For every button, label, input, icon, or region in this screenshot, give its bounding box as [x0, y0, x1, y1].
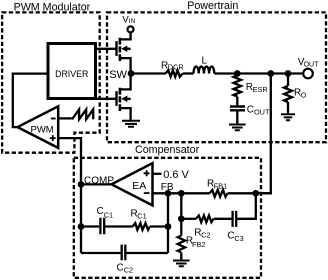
capacitor COUT [230, 107, 245, 111]
wire PWM plus input to COMP node [58, 138, 81, 253]
PWM minus input [51, 118, 56, 120]
CC2 label [117, 263, 134, 275]
op-amp EA error amplifier [112, 163, 153, 205]
wire RFB2 to ground [180, 253, 182, 260]
Powertrain box [107, 12, 326, 142]
wire COUT to ground [236, 110, 238, 123]
CC1 label [97, 206, 114, 219]
wire COMP node to EA output [81, 183, 112, 185]
wire L to VOUT rail [214, 72, 302, 74]
resistor RESR [234, 74, 242, 97]
capacitor CC3 [233, 211, 237, 227]
svg-text:PWM: PWM [31, 125, 54, 136]
RC1 label [131, 208, 147, 220]
ground below RO [281, 114, 295, 120]
transistor Q1 (high side NMOS) [117, 33, 131, 74]
RFB1 label [207, 179, 227, 191]
node RC2 junction [178, 215, 185, 222]
node FB-2 [178, 190, 185, 197]
node CC1 branch left [78, 223, 85, 230]
wire rail to RO [287, 74, 289, 87]
EA minus input [144, 192, 150, 194]
PWM plus input [50, 135, 56, 141]
svg-text:EA: EA [132, 180, 146, 192]
svg-text:C2: C2 [201, 230, 210, 239]
wire driver input from PWM comparator [13, 74, 48, 128]
RC2 label [194, 227, 210, 239]
svg-text:Compensator: Compensator [135, 144, 200, 156]
svg-text:C: C [117, 263, 124, 274]
svg-text:PWM Modulator: PWM Modulator [14, 2, 91, 14]
wire RC2 branch from FB leg2 [181, 218, 196, 220]
wire CC3 up to RFB1 right node [237, 193, 256, 219]
inductor L [194, 66, 215, 73]
PWM Modulator box [2, 12, 100, 152]
node RO junction [285, 70, 292, 77]
svg-text:0.6 V: 0.6 V [163, 169, 189, 181]
wire EA plus to 0.6V [153, 173, 162, 175]
RO label [294, 87, 307, 99]
CC3 label [227, 231, 243, 243]
node FB-1 [165, 190, 172, 197]
svg-text:DCR: DCR [168, 62, 184, 71]
node COMP [78, 181, 85, 188]
wire COMP leg to CC1 [81, 225, 99, 227]
wire RDCR to L [183, 72, 194, 74]
node CC1 branch right [165, 223, 172, 230]
svg-text:C1: C1 [137, 211, 146, 220]
driver U1 box [48, 44, 96, 99]
svg-text:COMP: COMP [84, 175, 114, 186]
RFB2 label [186, 236, 205, 250]
wire driver to Q2 gate [96, 98, 117, 100]
wire FB down leg 2 (to RC2 and RFB2) [180, 193, 182, 235]
node SW [128, 70, 135, 77]
wire CC2 branch left [81, 252, 121, 254]
wire driver to Q1 gate [96, 48, 117, 50]
node after L (RESR junction) [234, 70, 241, 77]
Compensator box [74, 158, 261, 278]
op-amp PWM comparator [18, 106, 59, 148]
resistor RDCR [166, 70, 183, 77]
wire RO to ground [287, 102, 289, 113]
svg-text:OUT: OUT [254, 108, 270, 117]
COUT label [247, 105, 270, 117]
ground below RFB2 [173, 261, 190, 267]
resistor RO [284, 86, 292, 102]
svg-text:FB1: FB1 [214, 182, 227, 191]
svg-text:C: C [247, 105, 254, 116]
svg-text:ESR: ESR [253, 85, 268, 94]
svg-text:OUT: OUT [304, 61, 320, 68]
svg-text:Powertrain: Powertrain [187, 0, 238, 12]
svg-text:DRIVER: DRIVER [55, 69, 88, 79]
node sense junction [267, 70, 274, 77]
ground below Q2 [122, 121, 140, 127]
wire FB down leg 1 (to CC1/CC2 network) [167, 193, 169, 253]
wire CC1 to RC1 [105, 225, 132, 227]
wire FB rail [153, 192, 210, 194]
svg-text:IN: IN [129, 18, 136, 25]
VOUT label [298, 57, 319, 68]
wire RC2 to CC3 [214, 218, 232, 220]
svg-text:C3: C3 [234, 234, 243, 243]
resistor RC2 [196, 215, 214, 222]
svg-text:C1: C1 [104, 210, 113, 219]
svg-text:O: O [301, 90, 307, 99]
resistor RC1 [133, 223, 150, 230]
sawtooth ramp symbol [72, 109, 93, 119]
VIN terminal [128, 26, 134, 32]
RDCR label [161, 61, 184, 72]
VIN label [122, 15, 135, 26]
transistor Q2 (low side NMOS) [117, 74, 131, 120]
wire RFB1 to sense node [228, 192, 271, 194]
svg-text:C2: C2 [124, 266, 133, 275]
resistor RFB1 [210, 190, 228, 197]
wire SW to RDCR [131, 72, 166, 74]
VOUT terminal [303, 69, 313, 79]
resistor RFB2 [178, 236, 186, 253]
wire sawtooth stub [58, 117, 72, 119]
EA plus input [144, 170, 150, 176]
node RFB1 right [252, 190, 259, 197]
svg-text:SW: SW [109, 69, 127, 81]
wire CC2 branch right [126, 252, 168, 254]
ground below COUT [229, 125, 246, 131]
wire VOUT sense line down to FB network [256, 74, 271, 194]
capacitor CC2 [122, 245, 126, 261]
RESR label [246, 82, 268, 94]
svg-text:L: L [202, 56, 208, 67]
wire RESR to COUT [236, 97, 238, 106]
svg-text:FB2: FB2 [192, 240, 205, 249]
wire RC1 to FB leg [150, 225, 168, 227]
svg-text:C: C [97, 206, 104, 217]
capacitor CC1 [100, 218, 104, 234]
